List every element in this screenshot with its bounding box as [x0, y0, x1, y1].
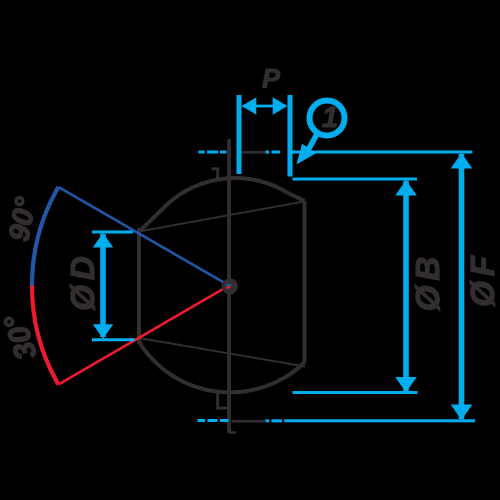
bottom chain dash 1	[198, 419, 206, 422]
svg-text:P: P	[262, 64, 281, 94]
top chain dash 1	[199, 151, 205, 154]
dim P right arrow	[273, 97, 288, 114]
dim P left extension	[237, 95, 242, 174]
dim F top extension line	[291, 151, 472, 154]
dim D top extension line	[92, 231, 133, 234]
bottom chain dash 5	[272, 419, 283, 422]
dim F bottom arrow	[451, 405, 473, 421]
dim F top arrow	[451, 153, 473, 169]
svg-text:ØB: ØB	[409, 252, 446, 312]
svg-text:ØD: ØD	[64, 251, 101, 311]
callout arrowhead	[297, 144, 316, 165]
top chord line	[139, 202, 304, 232]
top chain dash 2	[207, 151, 218, 154]
sphere top arc	[167, 178, 290, 205]
dim P right extension	[288, 95, 293, 177]
dim F bottom extension line	[284, 419, 475, 422]
red arc	[32, 286, 58, 385]
center dot	[222, 278, 238, 294]
svg-text:1: 1	[322, 102, 338, 134]
vertical centerline	[227, 139, 231, 433]
bottom chord line	[139, 338, 305, 367]
top chain dash 3	[220, 151, 227, 154]
dim B top extension line	[293, 178, 418, 181]
dim B bottom arrow	[395, 377, 417, 393]
dim P line	[254, 105, 274, 108]
blue arc	[32, 187, 58, 286]
right flat edge	[303, 201, 307, 363]
dim D bottom extension line	[92, 338, 135, 341]
top right chamfer	[289, 193, 305, 201]
dim D line	[100, 234, 106, 337]
dim F line	[459, 154, 465, 419]
red ray 30deg	[58, 286, 229, 385]
top chain dash 4	[266, 151, 270, 154]
left flat edge	[137, 228, 141, 343]
svg-text:ØF: ØF	[464, 251, 500, 307]
dim B bottom extension line	[293, 391, 418, 394]
centerline bottom foot	[229, 431, 237, 434]
dim P left arrow	[242, 97, 257, 114]
blue ray 90deg	[58, 187, 229, 286]
bottom pole tick	[216, 392, 229, 408]
dim B top arrow	[395, 180, 417, 196]
bottom flat segment	[232, 420, 266, 423]
top chain dash 5	[272, 151, 281, 154]
dim D bottom arrow	[93, 324, 113, 339]
center point tip marks	[226, 285, 232, 288]
dim D top arrow	[93, 233, 113, 248]
bottom chain dash 3	[220, 419, 229, 422]
top pole tick	[212, 168, 220, 179]
bottom chain dash 2	[208, 419, 218, 422]
callout arrow shaft	[309, 133, 318, 150]
dim B line	[403, 181, 409, 391]
callout circle 1	[310, 101, 345, 136]
bottom chain dash 4	[266, 419, 270, 422]
top flat segment	[240, 151, 266, 154]
top left chamfer	[139, 205, 167, 232]
sphere bottom arc	[139, 342, 305, 392]
